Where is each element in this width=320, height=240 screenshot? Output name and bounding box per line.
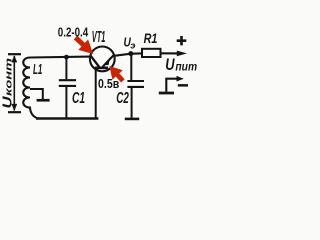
svg-text:U: U: [0, 96, 15, 109]
svg-text:пит: пит: [175, 60, 197, 74]
svg-text:U: U: [165, 56, 175, 74]
svg-text:VT1: VT1: [92, 29, 106, 46]
svg-text:конт: конт: [4, 58, 14, 96]
svg-text:R1: R1: [144, 30, 158, 46]
svg-text:C1: C1: [72, 90, 85, 107]
svg-text:C2: C2: [116, 90, 129, 107]
svg-text:0.5в: 0.5в: [98, 77, 119, 91]
svg-text:L1: L1: [33, 62, 42, 78]
svg-text:0.2-0.4: 0.2-0.4: [58, 25, 88, 39]
svg-text:э: э: [130, 41, 135, 52]
